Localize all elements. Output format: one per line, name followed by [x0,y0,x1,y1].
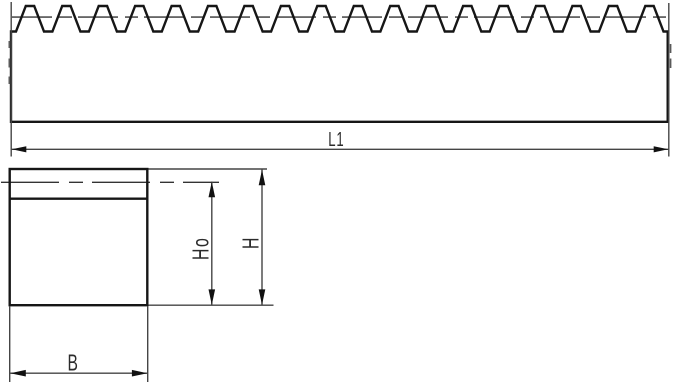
pitch line (top view, chain line) [12,16,669,18]
left edge dashes [9,41,11,84]
B dimension line [10,372,148,374]
right lower extension line (B) [147,307,149,383]
left lower extension line (B) [9,307,11,383]
svg-text:L1: L1 [328,127,343,151]
right edge dashes [670,44,672,68]
H dimension line [261,170,263,306]
svg-text:B: B [68,350,78,376]
L1 right arrowhead [654,146,669,152]
bottom extension line (H0 / H) [149,304,274,306]
B right arrowhead [132,370,148,377]
svg-text:Ho: Ho [189,238,215,260]
svg-text:H: H [239,238,265,249]
H bottom arrowhead [259,289,266,305]
section rectangle [10,169,148,305]
L1 dimension line [11,148,669,150]
L1 left arrowhead [12,146,26,152]
H0 dimension line [211,182,213,306]
top extension line (H) [149,168,268,170]
H0 bottom arrowhead [209,289,216,305]
B left arrowhead [10,370,25,377]
H top arrowhead [259,170,266,186]
tooth root line (section view) [10,197,148,199]
rack outline with teeth (top view) [11,6,668,122]
L1 left extension line [10,2,12,157]
L1 right extension line [668,3,670,157]
pitch line (section view, chain line) [1,181,219,183]
H0 top arrowhead [209,182,216,198]
